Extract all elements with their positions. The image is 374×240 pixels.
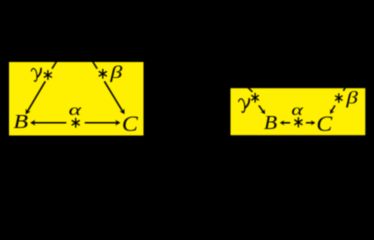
wire: short left arrow [280,120,290,125]
wire: horizontal arrow into C [85,120,121,126]
label gamma (right) [239,99,250,113]
right highlight box [231,88,366,135]
svg-text:β: β [345,89,359,108]
wire: stub entering box toward gamma label [247,86,253,92]
asterisk before beta [99,69,106,78]
left highlight box [9,62,144,136]
svg-text:β: β [109,62,123,82]
wire: short arrow into C [330,106,335,114]
wire: left diagonal arrow into B [26,81,46,114]
asterisk between arrows [295,118,302,127]
superscript asterisk after gamma [252,93,259,102]
svg-text:α: α [291,102,304,120]
asterisk after gamma [44,71,51,80]
wire: stub entering box toward beta label [343,85,347,91]
svg-text:B: B [13,110,28,132]
wire: right diagonal upper stub from apex A [91,59,97,68]
svg-text:C: C [316,112,332,137]
label gamma (left) [31,68,41,81]
wire: left diagonal upper stub from apex A [52,59,58,68]
wire: short right arrow [306,120,316,125]
superscript asterisk before beta [336,94,343,103]
svg-text:α: α [69,102,82,119]
wire: right diagonal arrow into C [104,81,124,114]
svg-text:B: B [264,111,277,134]
wire: horizontal arrow into B [30,120,66,126]
asterisk under alpha [72,118,79,127]
wire: short arrow into B [259,105,265,114]
svg-text:C: C [122,112,138,137]
